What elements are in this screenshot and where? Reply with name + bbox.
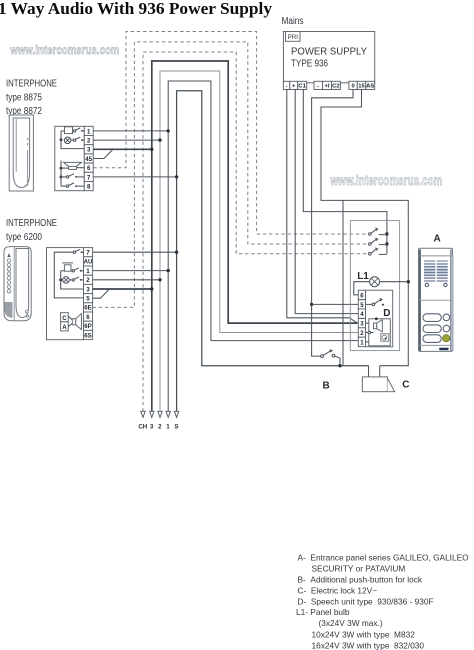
svg-text:+I: +I	[324, 84, 329, 90]
svg-text:8: 8	[87, 184, 91, 191]
speech unit microphone terminal 2	[366, 332, 369, 334]
speech unit internal wire terminal 3	[366, 322, 369, 324]
svg-text:2: 2	[158, 424, 162, 431]
interphone 2 switch to terminal 7	[73, 251, 75, 253]
svg-text:B: B	[323, 381, 330, 392]
entrance panel lower divider	[419, 344, 453, 346]
interphone 2 buzzer (circle with X)	[63, 277, 70, 284]
svg-text:3: 3	[87, 147, 91, 154]
svg-text:5: 5	[360, 302, 364, 309]
svg-text:C2: C2	[332, 84, 340, 90]
interphone 1 terminal 2	[84, 136, 93, 145]
interphone 1 terminal 3	[84, 145, 93, 154]
svg-text:C: C	[402, 380, 409, 391]
interphone 2 handset drawing	[4, 247, 31, 321]
interphone 2 terminal 1	[84, 266, 93, 275]
interphone 1 handset drawing	[9, 115, 33, 191]
svg-text:6: 6	[87, 165, 91, 172]
power supply terminal C1	[298, 81, 307, 89]
speech unit volume control	[381, 334, 389, 341]
interphone 2 call module boxes C and A	[61, 313, 69, 322]
svg-text:-: -	[286, 84, 288, 90]
entrance panel speaker grille	[424, 260, 435, 262]
interphone 1 switch to terminal 7	[60, 175, 63, 178]
svg-text:D- Speech unit type 930/836: D- Speech unit type 930/836 - 930F	[298, 597, 434, 607]
panel call switch 2	[369, 243, 372, 246]
wire loop 7 (bus S riser to lock supply wire)	[177, 91, 369, 412]
svg-text:type 6200: type 6200	[6, 232, 42, 243]
speech unit internal switch	[366, 303, 373, 305]
svg-text:(3x24V 3W max.): (3x24V 3W max.)	[319, 618, 383, 628]
interphone 2 terminal AU	[84, 257, 93, 266]
svg-text:1: 1	[166, 424, 170, 431]
svg-text:INTERPHONE: INTERPHONE	[6, 79, 57, 90]
svg-text:A: A	[62, 324, 67, 331]
svg-text:6E: 6E	[84, 305, 91, 312]
wire speech unit terminal 5 tap	[312, 303, 359, 305]
svg-text:6: 6	[360, 292, 364, 299]
speech unit terminal 5	[358, 300, 365, 309]
speech unit microphone/speaker sub-box	[369, 319, 391, 346]
riser arrow 1	[166, 411, 170, 417]
svg-text:3: 3	[360, 321, 364, 328]
svg-text:TYPE 936: TYPE 936	[291, 59, 328, 70]
wire power supply 15 to panel lamp and lock	[321, 90, 408, 366]
entrance panel screws	[425, 283, 428, 286]
svg-text:B- Additional push-button for: B- Additional push-button for lock	[298, 574, 423, 584]
speech unit internal wire terminal 1	[366, 341, 369, 343]
svg-text:15: 15	[358, 84, 365, 90]
power supply terminal +	[290, 81, 298, 89]
interphone 1 terminal 8	[84, 182, 93, 191]
interphone 1 speaker	[64, 162, 82, 166]
entrance panel name buttons	[423, 314, 441, 322]
interphone 1 hook switch to terminal 2	[71, 139, 74, 141]
svg-text:INTERPHONE: INTERPHONE	[6, 218, 57, 229]
interphone 1 receiver (circle with X)	[64, 137, 71, 144]
interphone 2 circuit box	[47, 248, 84, 340]
svg-text:7: 7	[87, 174, 91, 181]
power supply terminal AS	[366, 81, 375, 89]
svg-text:www.intercomsrus.com: www.intercomsrus.com	[330, 173, 443, 188]
panel call switch 1	[369, 233, 372, 236]
entrance panel bottom label	[439, 348, 448, 351]
wire loop 1 (dashed, interphone-1 terminal 6 to panel call switch 1)	[93, 32, 368, 235]
interphone 2 terminal 7	[84, 248, 93, 257]
svg-text:C- Electric lock 12V~: C- Electric lock 12V~	[298, 585, 378, 595]
power supply type 936 box	[283, 32, 374, 83]
svg-text:16x24V 3W with type 832/030: 16x24V 3W with type 832/030	[312, 640, 425, 650]
interphone 2 terminal 6	[84, 312, 93, 321]
wire interphone 2 terminal 7 to riser S	[93, 251, 177, 253]
speech unit D outline	[366, 290, 393, 347]
riser arrow 3	[150, 411, 154, 417]
power supply PRI terminal box	[286, 32, 301, 42]
svg-text:6S: 6S	[84, 332, 91, 339]
electric lock C	[368, 366, 370, 377]
wire loop 6 (bus 1 riser to speech unit terminal 1)	[168, 81, 358, 412]
speech unit terminal 1	[358, 337, 365, 346]
svg-text:www.intercomsrus.com: www.intercomsrus.com	[10, 43, 120, 57]
speech unit terminal 2	[358, 328, 365, 337]
svg-text:POWER SUPPLY: POWER SUPPLY	[291, 47, 367, 58]
riser arrow 2	[158, 411, 162, 417]
wire power supply C1 to call switches common	[303, 90, 387, 254]
power supply terminal +I	[323, 81, 332, 89]
interphone 2 internal wire loop to terminal 5	[54, 252, 83, 298]
riser arrow S	[174, 411, 178, 417]
panel area boundary wire (left edge)	[342, 200, 344, 365]
wire interphone 2 terminal 1 to riser 1	[93, 270, 169, 272]
interphone 2 terminal 2	[84, 275, 93, 284]
wire loop 4 (thick, bus 3 riser to speech unit terminal 3)	[152, 61, 358, 412]
interphone 2 terminal 3	[84, 284, 93, 293]
svg-text:1: 1	[360, 339, 364, 346]
wire interphone 2 terminal 2 to riser 2	[93, 279, 160, 281]
interphone 1 earpiece	[65, 127, 73, 134]
svg-text:A- Entrance panel series GALI: A- Entrance panel series GALILEO, GALILE…	[298, 553, 470, 563]
svg-text:6P: 6P	[84, 323, 91, 330]
interphone 1 circuit box	[55, 126, 85, 190]
svg-text:L1- Panel bulb: L1- Panel bulb	[296, 607, 350, 617]
interphone 1 internal wire to terminal 3	[60, 138, 63, 141]
svg-text:4: 4	[360, 311, 364, 318]
speech unit terminal 6	[358, 290, 365, 299]
speech unit terminal 4	[358, 309, 365, 318]
interphone 1 terminal 1	[84, 126, 93, 135]
svg-text:+: +	[292, 84, 296, 90]
interphone 2 microphone	[64, 265, 71, 271]
wire interphone 2 terminal 5 jumper	[93, 289, 109, 298]
svg-text:Mains: Mains	[282, 16, 304, 27]
interphone 1 switch to terminal 8	[61, 185, 66, 187]
svg-text:1 Way Audio With 936 Power Sup: 1 Way Audio With 936 Power Supply	[0, 0, 272, 18]
entrance panel divider	[419, 299, 453, 301]
svg-text:C1: C1	[298, 84, 306, 90]
power supply terminal 15	[357, 81, 366, 89]
wire power supply + to speech unit terminal 4	[295, 90, 358, 314]
svg-text:A: A	[434, 233, 441, 244]
power supply terminal -	[283, 81, 289, 89]
svg-text:AU: AU	[84, 259, 93, 266]
svg-text:SECURITY or PATAVIUM: SECURITY or PATAVIUM	[312, 564, 406, 574]
svg-text:D: D	[383, 308, 390, 319]
panel call switch 3	[369, 253, 372, 256]
wire power supply 0 to speech terminal 5 and push-button B	[312, 90, 353, 357]
riser arrow CH	[141, 411, 145, 417]
wire interphone 2 terminal 3 to riser 3 (thick)	[93, 288, 152, 290]
interphone 1 internal bus wire	[60, 161, 62, 187]
wire interphone 1 terminal 3 to riser 3 (thick)	[93, 148, 152, 150]
wire loop 5 (light, bus 2 riser to speech unit terminal 2)	[160, 71, 358, 412]
svg-text:2: 2	[360, 330, 364, 337]
interphone 1 terminal 6	[84, 163, 93, 172]
svg-text:S: S	[174, 424, 178, 431]
entrance panel A body	[419, 248, 453, 351]
wire interphone 1 terminal 45 jumper	[93, 150, 112, 159]
push-button B for lock	[321, 355, 324, 358]
interphone 2 terminal 6S	[84, 330, 93, 339]
interphone 1 terminal 45	[84, 154, 93, 163]
speech unit assembly box	[350, 221, 399, 351]
svg-text:CH: CH	[138, 424, 147, 431]
wire loop 3 (dashed, CH riser to panel call switch 3)	[143, 52, 369, 412]
svg-text:45: 45	[85, 156, 92, 163]
interphone 2 terminal 6P	[84, 321, 93, 330]
svg-text:2: 2	[87, 138, 91, 145]
wire lamp L1 to 15 riser	[380, 281, 409, 283]
power supply terminal -	[314, 81, 323, 89]
lamp L1 (panel bulb)	[370, 277, 380, 287]
wire lamp L1 to speech unit terminal 6	[354, 282, 370, 295]
svg-text:1: 1	[87, 128, 91, 135]
speech unit terminal 3	[358, 319, 365, 328]
interphone 2 internal wire to terminal 3	[59, 278, 62, 281]
interphone 2 terminal 5	[84, 294, 93, 303]
interphone 1 terminal 7	[84, 172, 93, 181]
power supply terminal C2	[332, 81, 341, 89]
wire interphone 1 terminal 1 to riser 1	[93, 130, 168, 132]
wire interphone 1 terminal 2 to riser 2	[93, 139, 160, 141]
power supply terminal 0	[349, 81, 357, 89]
svg-text:PRI: PRI	[288, 34, 299, 41]
svg-text:AS: AS	[366, 84, 374, 90]
svg-text:3: 3	[150, 424, 154, 431]
svg-text:-: -	[317, 84, 319, 90]
svg-text:10x24V 3W with type M832: 10x24V 3W with type M832	[312, 629, 416, 639]
wire power supply - (minus) to speech unit terminal 3	[287, 90, 359, 324]
svg-text:L1: L1	[357, 271, 369, 282]
interphone 2 terminal 6E	[84, 303, 93, 312]
entrance panel call buttons	[443, 314, 450, 321]
interphone 2 loudspeaker	[68, 316, 72, 320]
speech unit speaker	[374, 323, 377, 329]
interphone 2 switch to terminal 2	[69, 279, 72, 281]
wire interphone 1 terminal 7 to riser S	[93, 176, 176, 178]
svg-text:type 8875: type 8875	[6, 92, 42, 103]
svg-text:C: C	[62, 315, 67, 322]
wire loop 2 (dashed, interphone-2 terminal 6E to panel call switch 2)	[93, 42, 369, 308]
interphone 1 hook switch to terminal 1	[72, 130, 75, 132]
interphone 2 switch to terminal 1	[71, 270, 72, 272]
